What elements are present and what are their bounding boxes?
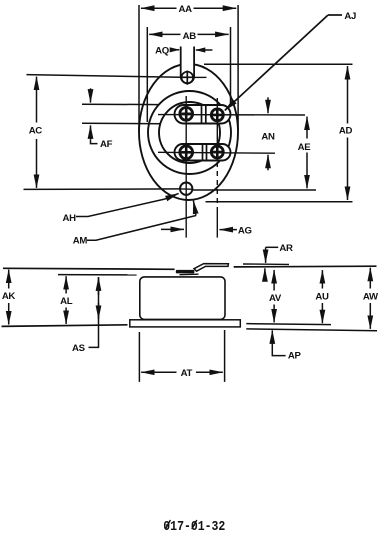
svg-text:AQ: AQ [155, 46, 170, 57]
bottom terminal plate [175, 144, 231, 161]
svg-text:AW: AW [363, 291, 378, 302]
slot screw [182, 72, 194, 84]
top terminal plate [175, 105, 231, 124]
plate plane line left [2, 325, 128, 327]
dim AD [347, 66, 349, 124]
svg-text:AL: AL [60, 296, 73, 307]
dim AB extension right [230, 27, 232, 106]
svg-text:AE: AE [298, 142, 312, 153]
svg-text:AJ: AJ [344, 11, 356, 22]
dim AC [36, 77, 38, 123]
dim AP [271, 330, 273, 344]
toggle lever arm [194, 264, 228, 272]
lever tab underside [180, 273, 199, 276]
slot right wall / AQ extension [193, 47, 195, 77]
dim AV [273, 270, 275, 291]
screw top-right [211, 109, 223, 121]
svg-text:AG: AG [238, 226, 252, 237]
plate bottom plane line right [246, 329, 377, 331]
dim AE [306, 117, 308, 139]
dim AA extension left [138, 5, 140, 130]
svg-text:AU: AU [315, 291, 329, 302]
slashed zeros [165, 520, 170, 529]
slot rounded bottom [181, 77, 194, 84]
dim AF extension lines [82, 103, 159, 105]
oval flange outline [139, 64, 238, 200]
svg-text:AF: AF [100, 139, 113, 150]
dim AA [141, 7, 177, 9]
screw top-left [180, 107, 193, 120]
centerline vertical right screws (dashed below) [216, 98, 218, 161]
svg-text:AB: AB [183, 31, 197, 42]
mounting plane line right [234, 265, 377, 268]
dim AN arrows [267, 97, 269, 113]
svg-text:AH: AH [63, 213, 77, 224]
dim AD extension top [204, 63, 353, 65]
svg-text:AA: AA [179, 4, 193, 15]
dim AD extension bottom [206, 201, 353, 203]
dim AF arrows and leader [90, 88, 92, 102]
svg-text:AK: AK [2, 291, 16, 302]
dim AL [65, 276, 67, 293]
mounting plane line left [3, 268, 175, 269]
dim AC extension bottom [24, 188, 181, 191]
dim AB extension left [146, 27, 148, 122]
plate top plane line right [246, 324, 331, 325]
screw bottom-right [211, 146, 223, 158]
svg-text:AN: AN [261, 132, 275, 143]
svg-text:AC: AC [29, 126, 43, 137]
flange underside line [58, 274, 137, 276]
lever plane extension line [243, 263, 289, 265]
outer ring circle [148, 91, 231, 174]
dim AC extension top [27, 75, 181, 78]
figure number [163, 518, 225, 534]
dim AA extension right [237, 5, 239, 130]
svg-text:AP: AP [288, 351, 302, 362]
dim AT extensions [138, 332, 140, 382]
dim AS [98, 277, 100, 295]
mounting slot (notch) white cutout [181, 58, 194, 82]
svg-text:AD: AD [339, 126, 353, 137]
bottom mounting screw [180, 183, 192, 195]
svg-text:AT: AT [181, 368, 193, 379]
slot left wall / AQ extension [180, 47, 182, 77]
centerline horizontal top screw row [158, 114, 305, 116]
screw bottom-left [180, 146, 193, 159]
centerline vertical left screws [185, 96, 187, 238]
mounting plate [130, 320, 241, 327]
dim AE bottom extension [192, 189, 316, 191]
dim AR [265, 247, 267, 263]
svg-text:AV: AV [269, 293, 282, 304]
svg-text:AS: AS [72, 343, 86, 354]
toggle lever tab [176, 270, 195, 274]
dim AK [8, 270, 10, 289]
dim AG arrows [161, 228, 184, 230]
dim AT [141, 371, 176, 373]
centerline horizontal bottom screw row [158, 151, 275, 154]
dim AU [321, 270, 323, 288]
switch body [140, 277, 225, 320]
dim AB [149, 33, 180, 35]
dim AW [369, 268, 371, 289]
svg-text:AM: AM [73, 236, 88, 247]
inner ring circle [159, 102, 220, 163]
svg-text:AR: AR [279, 243, 293, 254]
